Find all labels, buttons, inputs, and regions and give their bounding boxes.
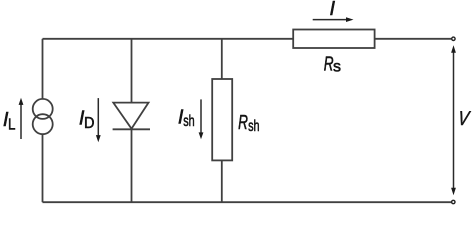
current source I_L [33,99,53,119]
resistor R_s [293,30,374,49]
arrowhead I_D [96,135,101,142]
wire diode branch lower [131,129,133,202]
wire left branch lower [42,135,44,203]
arrowhead I [346,17,354,22]
terminal top-right [452,37,455,40]
wire top-left horizontal [43,38,294,40]
resistor R_sh [212,79,232,160]
arrowhead I_sh [199,132,204,139]
arrow V double [453,52,455,190]
svg-text:I: I [330,0,336,20]
svg-text:V: V [457,107,472,129]
wire left branch upper [42,39,44,99]
arrowhead I_L [19,98,24,105]
wire top-right horizontal [375,38,452,40]
svg-text:D: D [84,115,95,133]
svg-text:R: R [238,111,248,133]
svg-text:sh: sh [183,112,194,130]
svg-text:L: L [8,117,15,134]
diode D1 [113,103,148,129]
arrowhead V bottom [451,188,456,196]
svg-text:s: s [333,59,341,76]
arrow I_sh down [200,99,202,133]
arrow I_L up [20,104,22,139]
arrow I right [313,19,348,21]
svg-text:sh: sh [248,117,259,135]
terminal bottom-right [452,200,455,203]
wire shunt branch upper [221,39,223,79]
wire bottom horizontal [43,201,452,203]
wire shunt branch lower [221,160,223,202]
wire diode branch upper [131,39,133,103]
arrowhead V top [451,45,456,53]
arrow I_D down [97,98,99,136]
